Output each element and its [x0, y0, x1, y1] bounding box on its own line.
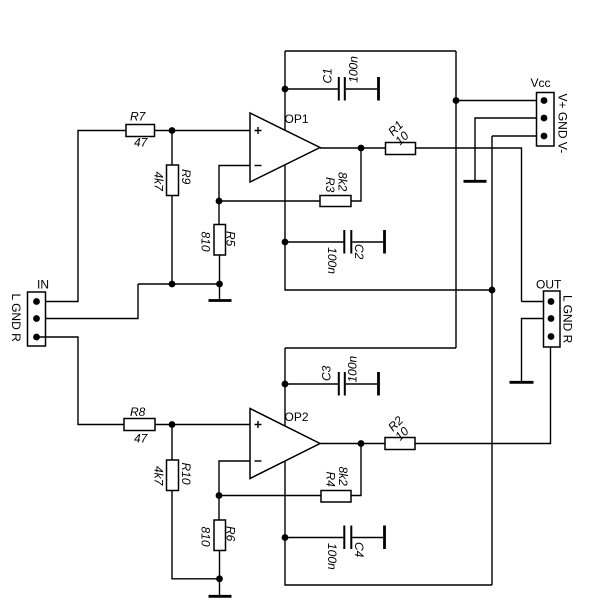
op-amp OP1 [250, 113, 320, 182]
svg-text:R5: R5 [224, 231, 238, 247]
node R8/R10 junction [169, 421, 176, 428]
svg-text:IN: IN [37, 278, 49, 292]
node V- rail junction [489, 287, 496, 294]
node R5 ground junction [216, 281, 223, 288]
wire R6 bottom [219, 551, 221, 579]
wire Vcc pin3 V- [492, 135, 544, 137]
svg-text:V+ GND V-: V+ GND V- [556, 94, 570, 154]
svg-text:100n: 100n [325, 543, 339, 570]
wire R9 top [171, 131, 173, 166]
wire OP2 V+ supply down into triangle [284, 348, 286, 426]
svg-text:R7: R7 [130, 110, 147, 124]
ground bar at C3 [377, 372, 380, 396]
wire R9 bottom [171, 196, 173, 285]
node OP2 V- junction [282, 534, 289, 541]
wire OP2 output row [320, 443, 385, 445]
wire OP1 minus input [219, 166, 250, 202]
resistor R5 [214, 225, 226, 256]
wire Vcc pin1 V+ [456, 100, 544, 102]
svg-text:L GND R: L GND R [561, 295, 575, 344]
svg-text:100n: 100n [347, 56, 361, 83]
node R9 ground junction [169, 281, 176, 288]
connector Vcc [537, 93, 555, 147]
ground bar at Vcc [464, 180, 487, 183]
svg-text:R8: R8 [130, 405, 146, 419]
ground symbol below R6 [209, 579, 232, 597]
resistor R3 [320, 196, 351, 207]
node C3 junction [282, 381, 289, 388]
connector IN [28, 292, 46, 346]
capacitor C1 [339, 77, 377, 101]
wire R5 top [218, 201, 220, 225]
svg-text:810: 810 [199, 527, 213, 547]
wire OP1 V- to V- rail [285, 242, 492, 290]
wire R3 to output [351, 148, 361, 201]
node feedback junction [216, 198, 223, 205]
wire IN GND [37, 284, 139, 319]
wire R8 to OP2 plus [155, 424, 250, 426]
svg-text:OP2: OP2 [285, 410, 309, 424]
wire C1 left [285, 88, 338, 90]
wire R4 to output [351, 444, 361, 496]
node feedback junction 2 [216, 492, 223, 499]
capacitor C3 [339, 372, 377, 396]
resistor R4 [321, 491, 351, 503]
node C1 junction [282, 86, 289, 93]
wire R5 bottom [219, 255, 221, 284]
wire IN L to R7 [37, 131, 127, 302]
wire top rail V+ [285, 50, 456, 52]
resistor R9 [167, 165, 179, 196]
svg-text:C1: C1 [320, 68, 334, 83]
svg-text:C3: C3 [319, 365, 333, 381]
ground bar at C4 [383, 526, 386, 550]
node R7/R9 junction [169, 127, 176, 134]
ground bar at OUT [510, 381, 534, 384]
node R6 ground junction [216, 575, 223, 582]
svg-text:Vcc: Vcc [531, 76, 551, 90]
svg-text:C2: C2 [352, 244, 366, 260]
wire feedback row 2 [219, 495, 321, 497]
op-amp OP2 [250, 409, 320, 479]
svg-text:4k7: 4k7 [152, 466, 166, 487]
wire C3 left [285, 383, 338, 385]
svg-text:R9: R9 [179, 169, 193, 185]
wire V+ vertical right side [455, 51, 457, 348]
svg-text:810: 810 [199, 232, 213, 252]
svg-text:R4: R4 [324, 472, 338, 488]
svg-text:4k7: 4k7 [152, 172, 166, 193]
svg-text:OP1: OP1 [285, 112, 309, 126]
wire R10 bottom [172, 491, 220, 579]
wire OP2 V- from triangle [284, 461, 286, 538]
resistor R6 [214, 520, 226, 551]
wire OUT L [522, 301, 544, 303]
resistor R2 [385, 438, 415, 450]
svg-text:47: 47 [134, 432, 149, 446]
wire C2 left [285, 241, 344, 243]
capacitor C4 [344, 526, 383, 550]
svg-text:8k2: 8k2 [336, 172, 350, 192]
svg-text:100n: 100n [325, 247, 339, 274]
svg-text:C4: C4 [352, 542, 366, 558]
svg-text:L GND R: L GND R [9, 294, 23, 343]
wire OP2 V- to V- rail [285, 538, 492, 586]
wire R1 to OUT L [416, 148, 522, 302]
resistor R10 [167, 460, 179, 491]
wire R2 to OUT R [415, 337, 551, 444]
svg-text:100n: 100n [346, 355, 360, 382]
wire IN R to R8 [37, 337, 125, 425]
wire R6 top [218, 496, 220, 521]
svg-text:R10: R10 [179, 463, 193, 485]
resistor R7 [126, 125, 155, 137]
wire OUT GND [522, 319, 544, 382]
wire C4 left [285, 537, 344, 539]
wire OP1 V+ supply down into triangle [284, 51, 286, 131]
resistor R8 [124, 419, 155, 431]
node output junction 2 [358, 440, 365, 447]
ground bar at C2 [383, 230, 386, 254]
wire OP1 V- from triangle [284, 166, 286, 243]
capacitor C2 [344, 230, 383, 254]
node OP1 V- junction [282, 239, 289, 246]
wire ground row [138, 283, 220, 285]
connector OUT [544, 291, 561, 347]
svg-text:8k2: 8k2 [336, 467, 350, 487]
wire Vcc pin2 GND [475, 118, 544, 180]
ground symbol below R5 [209, 284, 232, 301]
svg-text:47: 47 [134, 136, 149, 150]
resistor R1 [386, 143, 416, 155]
wire R7 to OP1 plus [155, 130, 251, 132]
node V+ to Vcc pin1 [453, 97, 460, 104]
ground bar at C1 [377, 77, 380, 101]
wire OP2 minus input [219, 461, 250, 496]
wire feedback row [219, 200, 320, 202]
node output junction [358, 145, 365, 152]
wire OP1 output row [320, 147, 386, 149]
wire R10 top [171, 425, 173, 461]
svg-text:R6: R6 [224, 526, 238, 542]
svg-text:R3: R3 [323, 177, 337, 193]
wire V- vertical right side [491, 136, 493, 585]
svg-text:OUT: OUT [536, 278, 562, 292]
wire OP2 top rail [285, 347, 456, 349]
